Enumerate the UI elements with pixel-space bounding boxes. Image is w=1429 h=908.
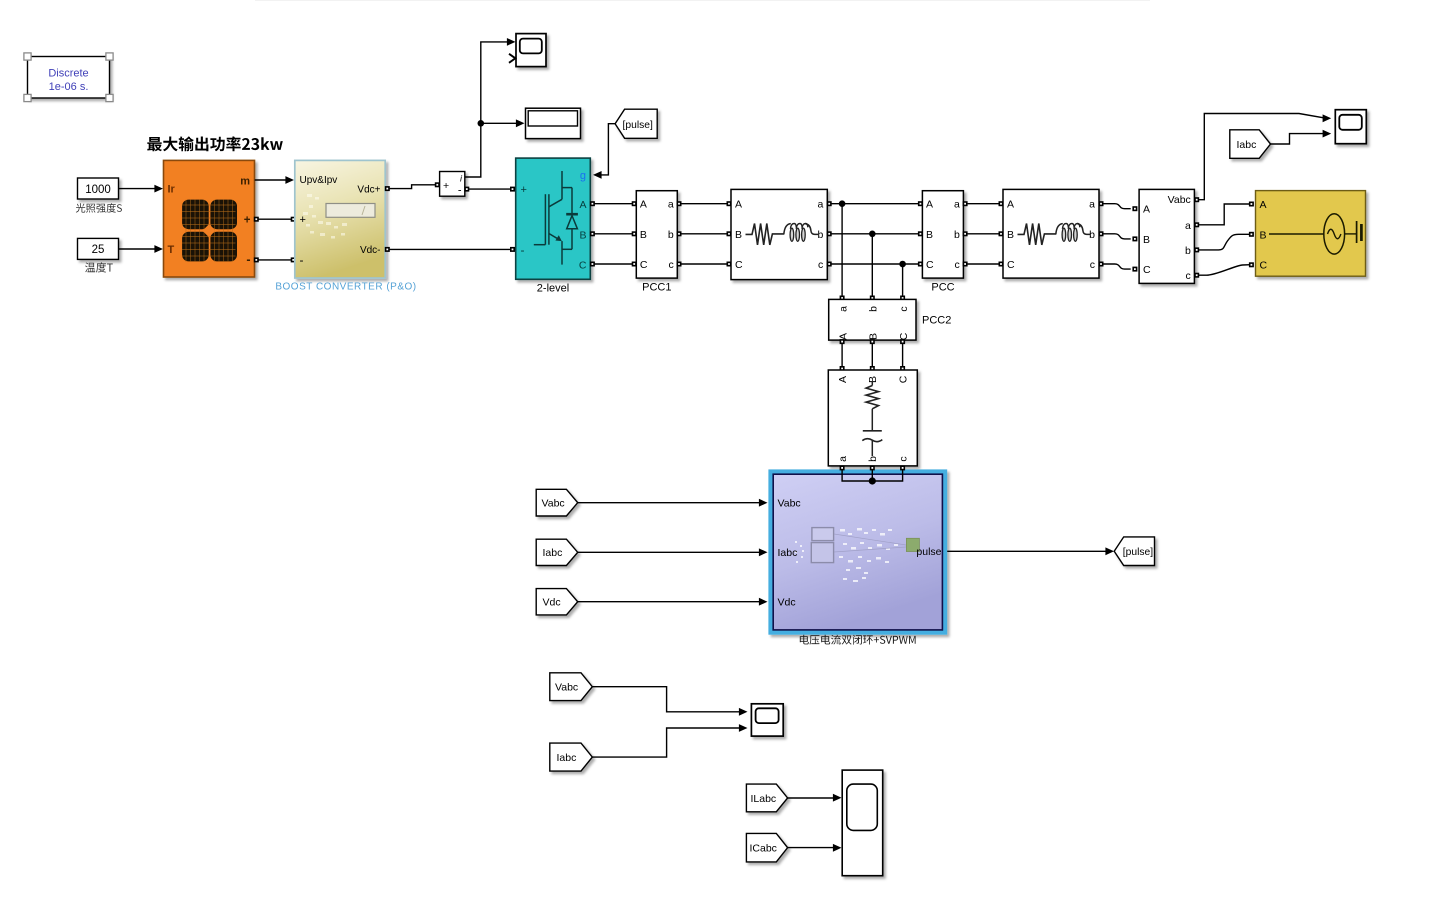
svg-text:Vdc+: Vdc+ — [357, 184, 380, 195]
svg-text:Discrete: Discrete — [48, 68, 88, 80]
label PCC1 — [642, 282, 671, 294]
label 电压电流双闭环+SVPWM — [800, 635, 916, 645]
svg-text:A: A — [1260, 199, 1267, 211]
svg-text:C: C — [1143, 264, 1151, 276]
svg-text:+: + — [443, 180, 449, 192]
svg-text:b: b — [1185, 245, 1191, 257]
svg-text:Vabc: Vabc — [555, 682, 578, 694]
svg-text:B: B — [1260, 229, 1267, 241]
svg-text:B: B — [640, 229, 647, 241]
SVPWM double closed-loop controller subsystem block — [768, 469, 947, 634]
wire constant 25 to PV T — [119, 245, 164, 253]
svg-text:C: C — [926, 259, 934, 271]
svg-text:Upv&Ipv: Upv&Ipv — [300, 175, 338, 186]
svg-text:Iabc: Iabc — [543, 547, 563, 559]
svg-text:c: c — [898, 306, 910, 311]
svg-text:[pulse]: [pulse] — [623, 120, 653, 131]
wire boost Vdc- to inverter - — [385, 247, 515, 252]
svg-text:PCC: PCC — [931, 282, 954, 294]
current measurement block i — [440, 172, 465, 197]
wire inverter B to PCC1 B — [590, 231, 637, 236]
svg-text:Iabc: Iabc — [1237, 139, 1257, 151]
wire PCC1 b to RLC branch B — [677, 231, 732, 236]
wire measurement a to grid source A — [1194, 202, 1254, 228]
wire constant 1000 to PV Ir — [119, 185, 164, 193]
From tag Vdc to controller — [536, 589, 767, 615]
label BOOST CONVERTER (P&O) — [275, 282, 416, 293]
svg-text:C: C — [640, 259, 648, 271]
svg-text:c: c — [955, 259, 960, 271]
wire PCC2 B to load B — [870, 339, 875, 371]
wire measurement b to grid source B — [1194, 232, 1254, 253]
svg-text:a: a — [1185, 220, 1191, 232]
From tag Iabc to scope — [1230, 130, 1331, 159]
svg-text:B: B — [867, 376, 879, 383]
svg-text:c: c — [1090, 259, 1095, 271]
wire inverter C to PCC1 C — [590, 262, 637, 267]
svg-text:-: - — [246, 253, 250, 267]
three-phase AC grid source block — [1256, 191, 1366, 277]
wire current measurement i to scope and display — [465, 38, 525, 177]
wire PCC c to RLC branch 2 C — [963, 262, 1004, 267]
svg-text:PCC2: PCC2 — [922, 315, 951, 327]
From tag Vabc to scope bottom — [550, 673, 748, 716]
scope block ILabc ICabc tall — [842, 770, 883, 876]
svg-text:A: A — [1143, 204, 1150, 216]
svg-text:+: + — [300, 214, 306, 226]
svg-text:m: m — [240, 175, 250, 187]
title label 最大输出功率23kw — [147, 136, 282, 151]
label 温度T — [85, 262, 113, 272]
svg-text:C: C — [1260, 260, 1268, 272]
svg-text:C: C — [1007, 259, 1015, 271]
boost converter subsystem block — [295, 160, 385, 278]
wire RL2 c to measurement C — [1099, 262, 1138, 272]
svg-text:A: A — [735, 199, 742, 211]
label PCC2 — [922, 315, 951, 327]
label 2-level — [537, 283, 569, 295]
label 光照强度S — [76, 203, 122, 213]
svg-text:[pulse]: [pulse] — [1123, 547, 1153, 558]
wire PCC1 c to RLC branch C — [677, 262, 732, 267]
svg-text:A: A — [926, 199, 933, 211]
powergui block Discrete 1e-06 s — [24, 53, 113, 102]
svg-text:a: a — [668, 199, 674, 211]
svg-text:Vdc-: Vdc- — [360, 245, 381, 256]
wire PV + to boost + — [254, 217, 296, 222]
constant block T value 25 — [78, 238, 119, 259]
svg-text:A: A — [838, 333, 850, 340]
wire load star point neutral bus — [840, 465, 906, 484]
svg-text:Iabc: Iabc — [778, 547, 798, 559]
svg-text:b: b — [817, 229, 823, 241]
wire RL2 a to measurement A — [1099, 201, 1138, 211]
svg-text:+: + — [244, 214, 251, 226]
wire controller pulse to Goto tag [pulse] — [947, 547, 1114, 555]
Goto tag [pulse] — [1114, 537, 1154, 566]
three-phase VI measurement block with Vabc output — [1139, 189, 1194, 283]
From tag ICabc to scope — [746, 833, 841, 862]
wire current measurement - to inverter + — [464, 187, 515, 192]
svg-text:B: B — [926, 229, 933, 241]
From tag [pulse] feeding inverter gate — [593, 109, 657, 179]
wire PV - to boost - — [254, 257, 296, 262]
wire RL1 b to PCC B with PCC2 tap — [827, 231, 923, 238]
svg-text:a: a — [954, 199, 960, 211]
svg-text:c: c — [818, 259, 823, 271]
two-level IGBT inverter bridge block — [516, 158, 591, 279]
scope block Vabc Iabc bottom — [751, 704, 783, 736]
From tag ILabc to scope — [746, 784, 841, 812]
svg-text:1000: 1000 — [85, 184, 111, 196]
wire PCC b to RLC branch 2 B — [963, 231, 1004, 236]
svg-text:pulse: pulse — [916, 546, 941, 558]
wire RL2 b to measurement B — [1099, 231, 1138, 241]
svg-text:1e-06 s.: 1e-06 s. — [49, 81, 89, 93]
svg-text:B: B — [868, 333, 880, 340]
wire PV m to boost Upv&Ipv — [255, 176, 294, 184]
svg-text:A: A — [837, 376, 849, 383]
wire PCC a to RLC branch 2 A — [963, 201, 1004, 206]
three-phase series RC load block rotated — [828, 370, 917, 466]
wire RL1 a to PCC A with PCC2 tap — [827, 200, 923, 207]
wire PCC2 C to load C — [900, 339, 905, 371]
svg-text:b: b — [868, 306, 880, 312]
svg-text:B: B — [735, 229, 742, 241]
svg-text:A: A — [579, 199, 586, 211]
svg-text:ICabc: ICabc — [750, 843, 777, 855]
wire PCC2 A to load A — [840, 339, 845, 371]
three-phase VI measurement block PCC1 — [636, 191, 677, 278]
three-phase VI measurement block PCC2 rotated — [829, 299, 916, 340]
wire tap c to PCC2 c — [900, 264, 905, 301]
From tag Iabc to controller — [536, 539, 767, 565]
svg-text:C: C — [897, 375, 909, 383]
svg-text:-: - — [521, 243, 525, 257]
svg-text:+: + — [521, 184, 527, 196]
wire PCC1 a to RLC branch A — [677, 201, 732, 206]
svg-text:g: g — [580, 170, 586, 182]
svg-text:B: B — [1007, 229, 1014, 241]
svg-text:c: c — [1186, 270, 1191, 282]
svg-text:ILabc: ILabc — [751, 793, 777, 805]
scope block Vdc — [509, 34, 546, 67]
svg-text:Vdc: Vdc — [778, 596, 796, 608]
wire measurement Vabc to scope — [1194, 114, 1331, 203]
wire RL1 c to PCC C with PCC2 tap — [827, 261, 923, 268]
wire boost Vdc+ to current measurement + — [385, 182, 440, 191]
svg-text:a: a — [817, 199, 823, 211]
wire measurement c to grid source C — [1194, 262, 1254, 277]
svg-text:a: a — [1089, 199, 1095, 211]
svg-text:Vabc: Vabc — [1168, 194, 1191, 206]
scope block grid Vabc Iabc — [1335, 110, 1366, 144]
three-phase series RL branch block 1 — [731, 189, 827, 279]
svg-text:b: b — [867, 456, 879, 462]
svg-text:-: - — [458, 185, 462, 197]
svg-text:B: B — [1143, 234, 1150, 246]
display block Vdc value — [526, 108, 581, 138]
PV array block (solar panel source) — [164, 160, 255, 277]
svg-text:B: B — [579, 229, 586, 241]
svg-text:a: a — [837, 456, 849, 462]
svg-text:BOOST CONVERTER (P&O): BOOST CONVERTER (P&O) — [275, 282, 416, 293]
svg-text:b: b — [668, 229, 674, 241]
svg-text:-: - — [300, 253, 304, 267]
svg-text:C: C — [735, 259, 743, 271]
svg-text:Iabc: Iabc — [557, 752, 577, 764]
svg-text:c: c — [668, 259, 673, 271]
wire tap a to PCC2 a — [840, 204, 845, 301]
svg-text:A: A — [1007, 199, 1014, 211]
three-phase VI measurement block PCC — [922, 191, 963, 278]
From tag Vabc to controller — [536, 489, 767, 516]
svg-text:T: T — [168, 244, 175, 256]
From tag Iabc to scope bottom — [550, 724, 748, 771]
svg-text:Ir: Ir — [168, 183, 176, 195]
svg-text:b: b — [954, 229, 960, 241]
constant block S value 1000 — [78, 178, 119, 199]
svg-text:A: A — [640, 199, 647, 211]
svg-text:Vabc: Vabc — [778, 497, 801, 509]
wire tap b to PCC2 b — [870, 234, 875, 301]
wire inverter A to PCC1 A — [590, 201, 637, 206]
label PCC — [931, 282, 954, 294]
svg-text:C: C — [579, 260, 587, 272]
three-phase series RL branch block 2 — [1003, 189, 1099, 278]
svg-text:25: 25 — [92, 244, 105, 256]
svg-text:C: C — [898, 332, 910, 340]
svg-text:Vdc: Vdc — [543, 597, 561, 609]
svg-text:PCC1: PCC1 — [642, 282, 671, 294]
svg-text:2-level: 2-level — [537, 283, 569, 295]
svg-text:c: c — [897, 456, 909, 461]
svg-text:Vabc: Vabc — [542, 498, 565, 510]
svg-text:a: a — [838, 306, 850, 312]
